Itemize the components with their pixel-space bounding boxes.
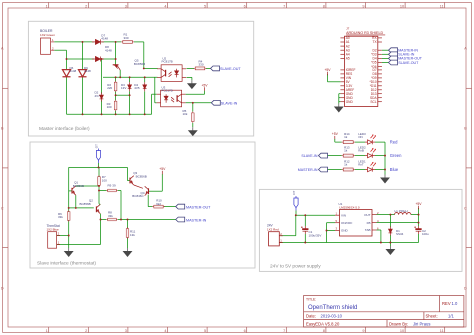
svg-text:MASTER-IN: MASTER-IN [298,168,318,172]
svg-text:J7: J7 [346,26,350,30]
svg-text:L1 150uH: L1 150uH [395,209,408,213]
svg-text:MASTER-IN: MASTER-IN [186,218,207,222]
svg-text:SS34: SS34 [396,232,404,236]
svg-text:EasyEDA V5.8.20: EasyEDA V5.8.20 [306,321,340,326]
svg-text:Master interface (boiler): Master interface (boiler) [39,126,90,132]
svg-text:9: 9 [362,329,364,333]
svg-text:330: 330 [199,63,204,67]
svg-text:4V7: 4V7 [95,94,101,98]
svg-text:4148: 4148 [101,37,108,41]
svg-text:ARDUINO R3 SHIELD: ARDUINO R3 SHIELD [346,31,383,35]
svg-text:BC856B: BC856B [73,184,84,188]
svg-text:RxT: RxT [358,163,364,167]
svg-text:6: 6 [244,329,246,333]
svg-text:100u/35V: 100u/35V [309,233,322,237]
svg-text:10: 10 [400,4,404,8]
svg-text:Blue: Blue [390,167,399,172]
svg-text:Sheet:: Sheet: [426,314,438,319]
svg-text:5: 5 [204,329,206,333]
svg-text:B: B [1,127,4,131]
svg-text:C: C [464,207,467,211]
svg-text:220: 220 [107,86,112,90]
svg-text:33k: 33k [108,214,113,218]
svg-text:4148: 4148 [70,69,77,73]
svg-text:ON: ON [358,135,363,139]
svg-text:39: 39 [112,183,116,187]
svg-text:7: 7 [283,4,285,8]
svg-text:2: 2 [85,4,87,8]
svg-text:1/1: 1/1 [448,314,454,319]
svg-text:4: 4 [164,329,166,333]
svg-text:3: 3 [125,329,127,333]
svg-text:A5: A5 [346,57,350,61]
svg-text:D: D [464,287,467,291]
svg-text:Jiri Praus: Jiri Praus [413,321,430,326]
svg-text:5: 5 [204,4,206,8]
svg-text:GND: GND [341,229,349,233]
svg-text:FB: FB [367,221,371,225]
svg-text:Drawn By:: Drawn By: [389,321,408,326]
svg-text:OT: OT [292,190,296,194]
svg-text:6k2: 6k2 [156,202,161,206]
svg-text:2019-03-10: 2019-03-10 [321,314,343,319]
svg-text:SLAVE-OUT: SLAVE-OUT [398,61,419,65]
svg-text:4V5: 4V5 [134,86,140,90]
svg-text:100: 100 [102,179,107,183]
svg-text:A: A [1,47,4,51]
svg-text:10: 10 [400,329,404,333]
svg-text:8: 8 [323,4,325,8]
svg-text:1k: 1k [344,149,348,153]
svg-text:BC856B: BC856B [80,202,91,206]
svg-text:4148: 4148 [105,48,112,52]
svg-text:R9: R9 [108,183,112,187]
svg-text:LM2596SX-5.0: LM2596SX-5.0 [340,206,360,210]
svg-text:RxB: RxB [358,149,364,153]
svg-text:33k: 33k [58,215,63,219]
svg-text:TITLE:: TITLE: [306,298,316,302]
svg-text:9: 9 [362,4,364,8]
svg-text:PC817B: PC817B [162,89,173,93]
svg-text:SLAVE-OUT: SLAVE-OUT [220,67,241,71]
svg-text:4: 4 [164,4,166,8]
svg-text:OpenTherm shield: OpenTherm shield [308,305,357,311]
svg-text:SLAVE-IN: SLAVE-IN [301,154,318,158]
svg-text:7: 7 [283,329,285,333]
svg-text:8: 8 [323,329,325,333]
svg-text:1.0: 1.0 [452,301,458,306]
svg-text:BC846C: BC846C [132,194,144,198]
svg-text:2: 2 [85,329,87,333]
svg-text:SLAVE-IN: SLAVE-IN [221,102,238,106]
svg-text:Date:: Date: [306,314,316,319]
svg-text:GND: GND [346,100,354,104]
svg-text:REV: REV [442,301,451,306]
svg-text:100u: 100u [422,232,429,236]
svg-text:B: B [464,127,467,131]
svg-text:13k: 13k [130,233,135,237]
svg-text:BC856B: BC856B [136,174,147,178]
svg-text:3: 3 [125,4,127,8]
svg-text:1: 1 [46,329,48,333]
svg-text:330: 330 [124,36,129,40]
svg-text:1: 1 [46,4,48,8]
svg-text:13V: 13V [121,86,126,90]
svg-text:TAB: TAB [365,228,371,232]
svg-text:ON/OFF: ON/OFF [341,221,352,225]
svg-text:24V to 5V power supply: 24V to 5V power supply [270,263,321,269]
svg-text:PC817B: PC817B [162,60,173,64]
svg-text:BC856B: BC856B [134,62,145,66]
svg-text:1k: 1k [344,163,348,167]
svg-text:C: C [1,207,4,211]
svg-text:Slave interface (thermostat): Slave interface (thermostat) [37,261,96,267]
svg-text:OUT: OUT [364,213,371,217]
svg-text:MASTER-OUT: MASTER-OUT [186,205,211,209]
svg-text:6: 6 [244,4,246,8]
svg-text:1X2 Red: 1X2 Red [267,228,279,232]
svg-text:11: 11 [440,329,444,333]
svg-text:100: 100 [107,105,112,109]
svg-text:10k: 10k [183,112,188,116]
svg-text:OT: OT [94,144,98,148]
svg-text:Green: Green [390,153,402,158]
svg-text:A: A [464,47,467,51]
svg-text:Red: Red [390,140,398,145]
svg-text:VIN: VIN [341,213,346,217]
svg-text:SCL: SCL [370,100,376,104]
svg-text:1X2 Green: 1X2 Green [40,33,55,37]
svg-text:D: D [1,287,4,291]
svg-text:4148: 4148 [84,69,91,73]
svg-text:1k: 1k [344,135,348,139]
svg-text:11: 11 [440,4,444,8]
